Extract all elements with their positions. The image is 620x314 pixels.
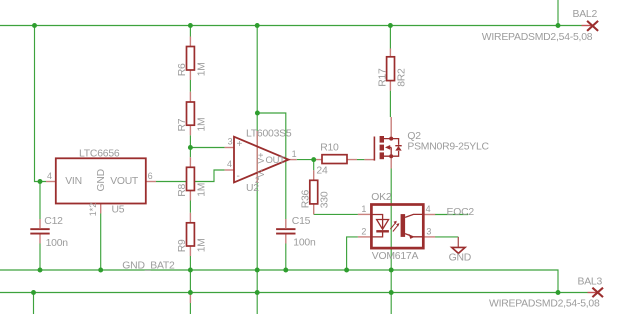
svg-text:BAL3: BAL3 <box>578 276 603 287</box>
transistor Q2 MOSFET <box>374 136 401 161</box>
svg-text:24: 24 <box>316 166 328 177</box>
wire OK2 pin4 net EOC2 <box>435 214 468 216</box>
pin R17 stubs <box>389 49 391 91</box>
svg-text:1: 1 <box>361 204 366 214</box>
wirepad BAL2 X <box>587 21 598 31</box>
optocoupler OK2 phototransistor <box>401 214 424 239</box>
pin U5 GND stub <box>100 204 102 214</box>
svg-text:Q2: Q2 <box>407 131 421 142</box>
svg-text:WIREPADSMD2,54-5,08: WIREPADSMD2,54-5,08 <box>482 32 593 43</box>
wire C15 bottom to GND_BAT2 <box>285 244 287 271</box>
wire V+ branch to C15 <box>257 113 285 219</box>
svg-text:R6: R6 <box>177 63 188 76</box>
svg-text:OUT: OUT <box>266 155 286 166</box>
svg-text:VOUT: VOUT <box>110 176 139 187</box>
wire OK2 pin3 to GND <box>435 236 458 238</box>
svg-text:R10: R10 <box>320 143 339 154</box>
junction node U5 VIN <box>38 179 43 184</box>
wire OK2 pin2 to GND_BAT2 <box>347 237 358 270</box>
wire R10 to Q2 gate <box>357 159 364 161</box>
op-amp U2 triangle <box>234 137 289 183</box>
pin op-amp -input stub <box>225 169 234 171</box>
svg-text:R7: R7 <box>177 118 188 131</box>
pin R6 stubs <box>189 37 191 81</box>
optocoupler OK2 light arrows <box>390 221 399 232</box>
optocoupler OK2 box <box>371 205 423 249</box>
svg-text:2: 2 <box>361 227 366 237</box>
wire U5 VOUT to op-amp -input <box>156 170 225 182</box>
capacitor C12 <box>30 228 49 234</box>
svg-text:-: - <box>237 171 240 182</box>
pin Q2 gate stub <box>364 159 374 161</box>
wire R7/R8 tap to op-amp +input <box>190 147 224 149</box>
svg-text:R9: R9 <box>177 239 188 252</box>
svg-text:4: 4 <box>426 204 431 214</box>
svg-text:U5: U5 <box>112 205 125 216</box>
svg-text:OK2: OK2 <box>371 192 392 203</box>
wire BAL2 stub from top edge <box>557 0 559 26</box>
wire U5 GND pin to GND_BAT2 <box>100 214 102 271</box>
pin C12 stubs <box>39 219 41 244</box>
svg-text:VOM617A: VOM617A <box>372 251 419 262</box>
svg-text:GND: GND <box>449 253 471 264</box>
svg-text:C15: C15 <box>292 216 311 227</box>
pin BAL3 lower stub <box>189 294 191 303</box>
pin BAL2 pad stub <box>582 25 593 27</box>
pin BAL3 pad stub <box>588 292 598 294</box>
pin U5 VOUT stub <box>146 181 156 183</box>
resistor R36 <box>310 180 318 204</box>
wire op-amp output node <box>297 159 314 161</box>
wire BAL3 left stub down <box>33 293 35 314</box>
junction dots GND_BAT2 rail <box>38 268 394 273</box>
svg-text:BAL2: BAL2 <box>573 9 598 20</box>
resistor R17 <box>387 57 395 81</box>
pin op-amp V+ V- vertical stubs <box>256 131 258 183</box>
svg-text:3: 3 <box>426 227 431 237</box>
pin Q2 drain stub <box>390 117 392 139</box>
pin R7 stubs <box>189 92 191 135</box>
svg-text:GND_BAT2: GND_BAT2 <box>122 261 175 272</box>
svg-text:R36: R36 <box>301 189 312 208</box>
resistor R10 <box>322 155 347 164</box>
junction dots BAL3 rail <box>31 290 560 295</box>
wire R17 top and bottom <box>389 26 391 118</box>
wirepad BAL3 X <box>592 288 603 297</box>
pin R36 stubs <box>313 170 315 214</box>
junction node op-amp V+ <box>255 111 260 116</box>
svg-text:VIN: VIN <box>65 176 82 187</box>
pin C15 stubs <box>285 219 287 244</box>
pin R8 stubs <box>189 157 191 200</box>
optocoupler OK2 LED <box>372 215 389 237</box>
pin GND symbol stub <box>457 237 459 248</box>
pin OK2 pin1 stub <box>358 213 372 215</box>
svg-text:1*2: 1*2 <box>88 203 98 217</box>
pin R9 stubs <box>189 213 191 256</box>
svg-text:LT6003S5: LT6003S5 <box>246 129 292 140</box>
svg-text:LTC6656: LTC6656 <box>79 149 120 160</box>
wire C12 bottom to GND_BAT2 <box>39 244 41 271</box>
resistor R9 <box>187 223 195 246</box>
junction node op-amp output <box>311 157 316 162</box>
resistor R6 <box>187 47 195 71</box>
svg-text:R8: R8 <box>177 184 188 197</box>
wire R36 bottom to OK2 pin1 <box>314 213 358 215</box>
resistor R8 <box>187 167 195 190</box>
pin OK2 pin4 stub <box>423 214 435 216</box>
svg-text:3: 3 <box>228 136 233 146</box>
ground symbol GND <box>452 247 465 253</box>
svg-text:V-: V- <box>256 169 266 178</box>
pin OK2 pin3 stub <box>423 236 435 238</box>
svg-text:1M: 1M <box>196 238 207 252</box>
svg-text:6: 6 <box>148 171 153 181</box>
svg-text:1M: 1M <box>196 118 207 132</box>
svg-text:100n: 100n <box>46 238 69 249</box>
svg-text:1: 1 <box>292 149 297 159</box>
svg-text:8R2: 8R2 <box>396 68 407 87</box>
pin Q2 source stub <box>390 156 392 168</box>
wire Q2 source down through OK2 to rails <box>390 169 392 314</box>
IC U5 LTC6656 box <box>56 158 146 203</box>
pin op-amp output stub <box>289 159 297 161</box>
wire BAL3 rail <box>0 292 588 294</box>
svg-text:GND: GND <box>96 169 107 191</box>
svg-text:R17: R17 <box>377 68 388 87</box>
svg-text:EOC2: EOC2 <box>447 207 475 218</box>
wire resistor chain verticals <box>189 26 191 314</box>
wire top rail net BAL2 <box>0 25 582 27</box>
pin op-amp +input stub <box>225 147 234 149</box>
svg-text:PSMN0R9-25YLC: PSMN0R9-25YLC <box>407 142 489 153</box>
wire GND_BAT2 rail <box>0 270 558 293</box>
wire left branch down to U5 VIN and C12 <box>35 26 47 220</box>
svg-text:WIREPADSMD2,54-5,08: WIREPADSMD2,54-5,08 <box>489 298 600 309</box>
svg-text:100n: 100n <box>293 238 316 249</box>
junction dots top rail <box>32 23 560 28</box>
svg-text:C12: C12 <box>44 216 63 227</box>
capacitor C15 <box>276 228 295 234</box>
svg-text:V+: V+ <box>256 153 266 164</box>
pin R10 stubs <box>314 159 357 161</box>
svg-text:4: 4 <box>227 159 232 169</box>
svg-text:+: + <box>237 139 243 150</box>
svg-text:1M: 1M <box>196 62 207 76</box>
pin U5 VIN stub <box>46 181 56 183</box>
svg-text:1M: 1M <box>196 183 207 197</box>
svg-text:4: 4 <box>47 171 52 181</box>
junction node op-amp +input <box>188 145 193 150</box>
wire output node down to R36 <box>313 160 315 171</box>
pin OK2 pin2 stub <box>358 236 372 238</box>
wire V+ V- vertical through op-amp <box>256 26 258 314</box>
svg-text:330: 330 <box>319 191 330 208</box>
resistor R7 <box>187 102 195 125</box>
